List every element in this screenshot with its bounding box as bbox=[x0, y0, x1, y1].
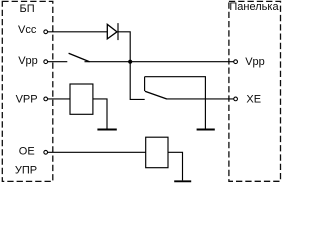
ground (K2) bbox=[174, 180, 191, 182]
svg-text:Vpp: Vpp bbox=[18, 55, 38, 67]
svg-text:Vpp: Vpp bbox=[245, 56, 265, 68]
svg-text:Панелька: Панелька bbox=[229, 1, 279, 13]
diode VD1 bbox=[107, 23, 118, 40]
wire OE to K2 bbox=[48, 151, 146, 153]
svg-text:Vcc: Vcc bbox=[18, 24, 37, 36]
wire K1 to ground bbox=[93, 99, 107, 129]
ground (S2) bbox=[197, 129, 215, 131]
wire S1 to socket Vpp bbox=[85, 61, 234, 63]
relay coil K2 bbox=[146, 137, 168, 168]
switch S1 (Vpp) bbox=[69, 53, 90, 62]
wire VPP to K1 bbox=[48, 98, 70, 100]
terminal OE bbox=[44, 150, 48, 154]
svg-text:XE: XE bbox=[246, 94, 261, 106]
terminal Vpp (Панелька) bbox=[234, 60, 238, 64]
wire S2 top contact to ground bbox=[145, 77, 206, 129]
relay coil K1 bbox=[70, 84, 93, 114]
svg-text:VPP: VPP bbox=[16, 94, 38, 106]
terminal Vcc bbox=[44, 30, 48, 34]
wire XE line bbox=[166, 98, 234, 100]
terminal VPP (БП) bbox=[44, 97, 48, 101]
wire diode cathode to Vpp node bbox=[118, 32, 130, 62]
svg-text:БП: БП bbox=[20, 3, 35, 15]
svg-text:OE: OE bbox=[19, 146, 35, 158]
wire K2 to ground bbox=[168, 152, 183, 180]
ground (K1) bbox=[97, 129, 116, 131]
БП unit box bbox=[2, 1, 53, 181]
terminal XE bbox=[234, 97, 238, 101]
Панелька socket box bbox=[229, 1, 281, 181]
wire Vpp terminal stub bbox=[48, 61, 68, 63]
wire Vcc to diode bbox=[48, 31, 108, 33]
node Vpp junction bbox=[128, 60, 132, 64]
wire node down to S2 contact bbox=[130, 62, 145, 100]
svg-text:УПР: УПР bbox=[15, 165, 37, 177]
switch S2 arm bbox=[145, 91, 167, 99]
switch S2 fixed contact (grounded) bbox=[144, 77, 146, 91]
terminal Vpp (БП) bbox=[44, 60, 48, 64]
